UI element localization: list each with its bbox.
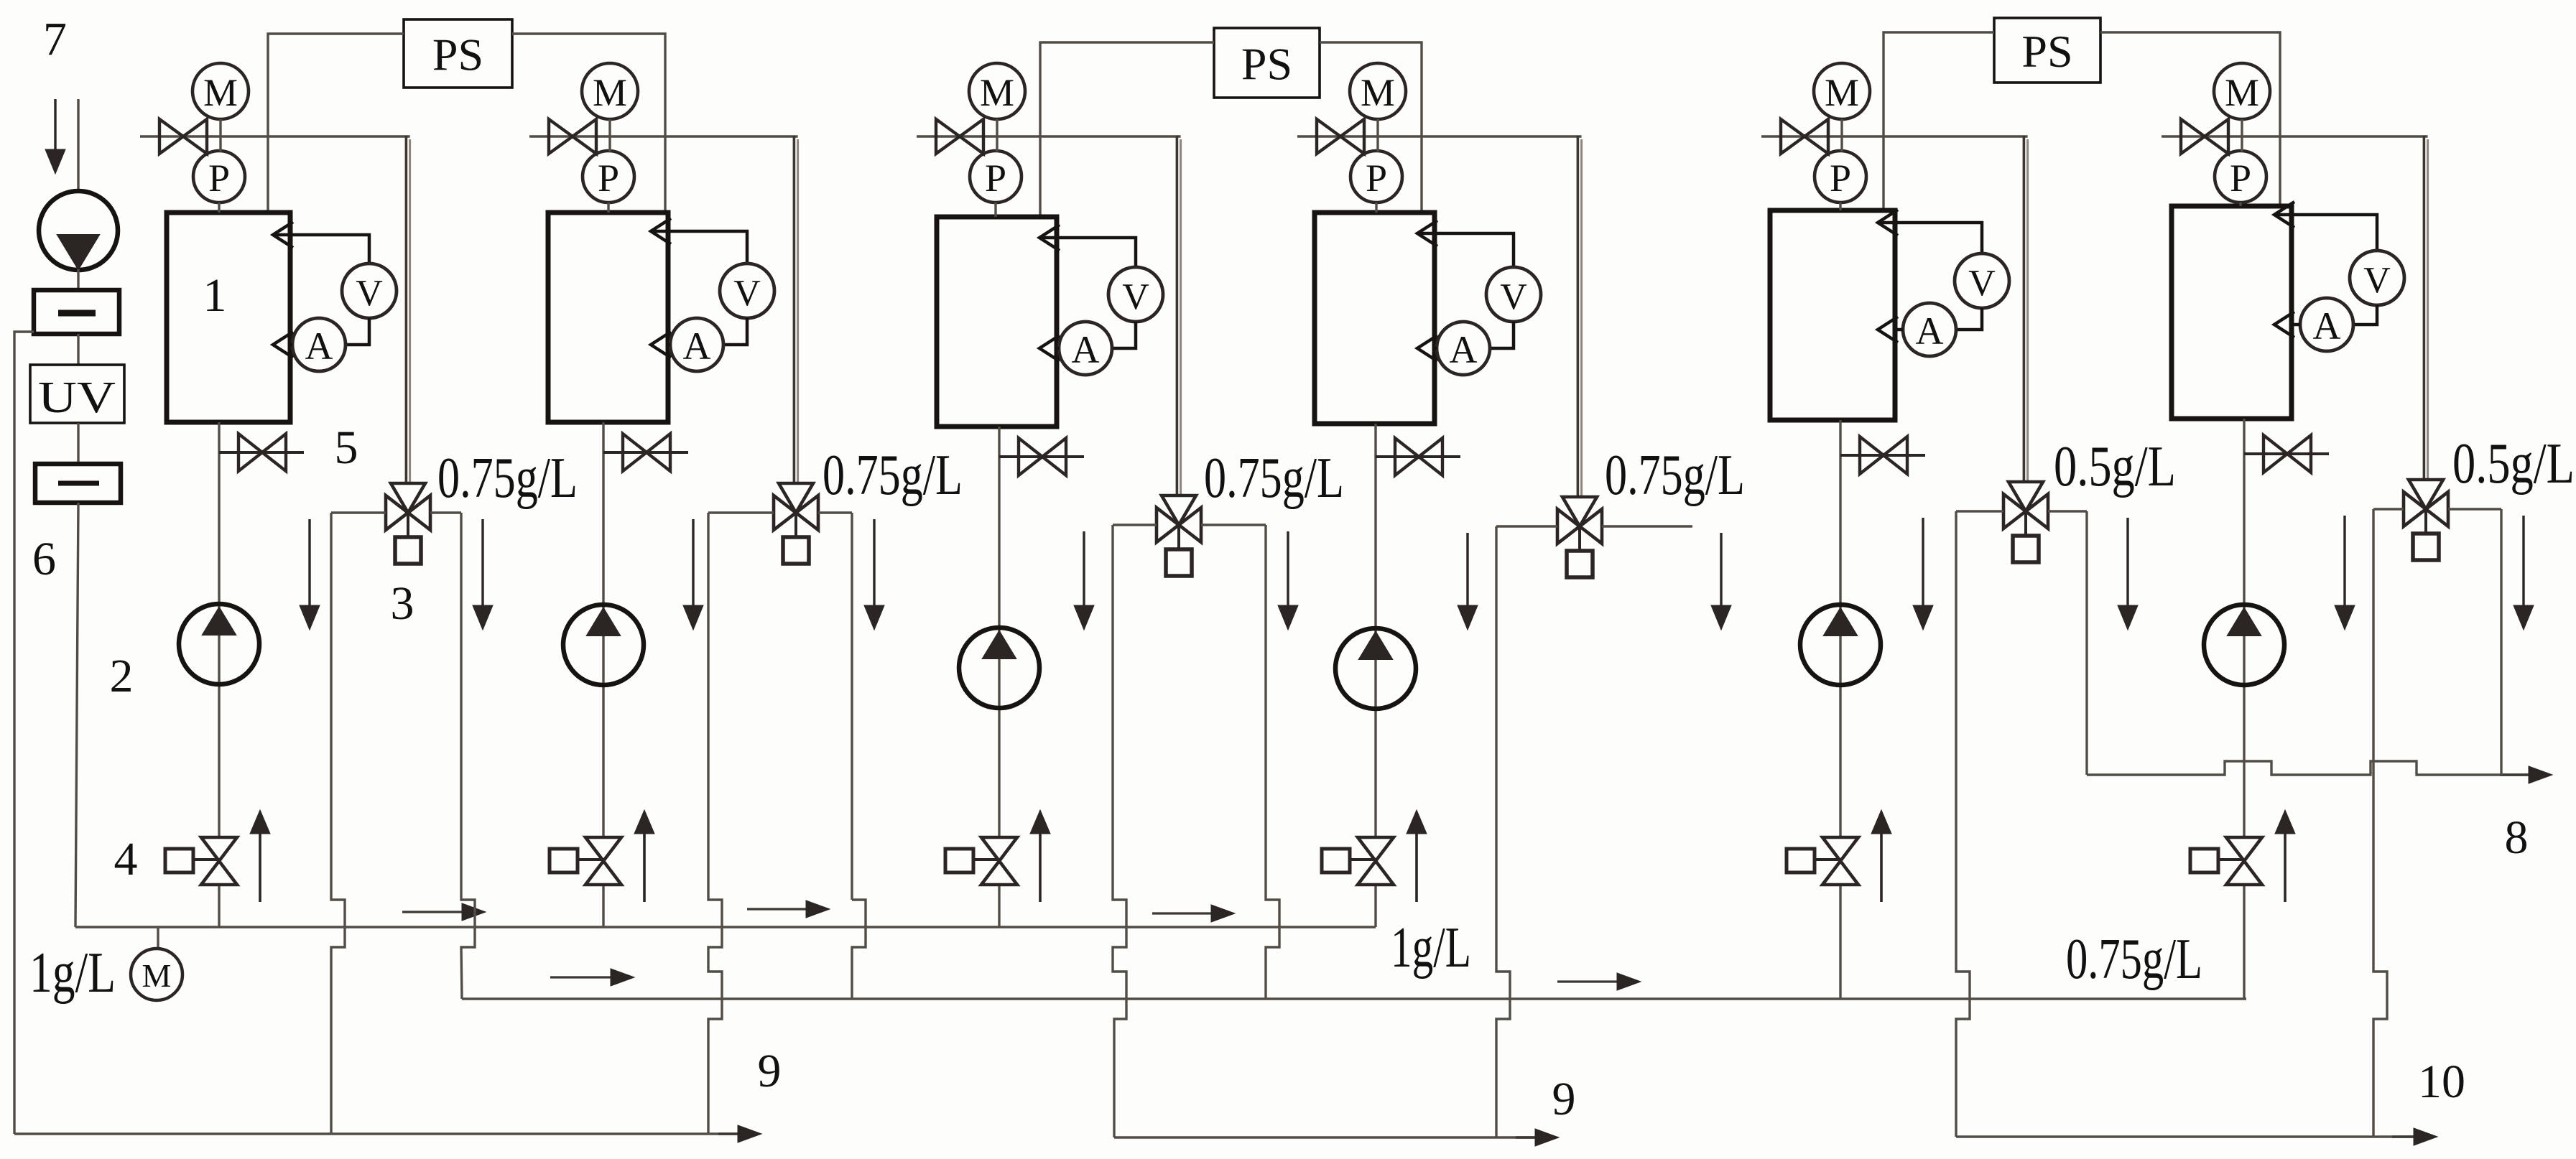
svg-text:A: A xyxy=(1072,328,1100,371)
svg-text:P: P xyxy=(208,157,230,200)
svg-text:0.5g/L: 0.5g/L xyxy=(2054,435,2176,498)
svg-text:2: 2 xyxy=(110,650,134,702)
svg-text:9: 9 xyxy=(1552,1073,1576,1125)
svg-text:A: A xyxy=(1450,328,1478,371)
svg-text:V: V xyxy=(1122,276,1149,317)
svg-text:V: V xyxy=(2363,260,2391,301)
svg-text:P: P xyxy=(2230,157,2251,200)
svg-text:A: A xyxy=(2313,304,2341,348)
svg-text:6: 6 xyxy=(32,533,56,585)
svg-text:PS: PS xyxy=(1241,39,1292,90)
svg-text:0.5g/L: 0.5g/L xyxy=(2452,432,2575,495)
svg-text:1g/L: 1g/L xyxy=(1391,916,1471,979)
svg-text:10: 10 xyxy=(2418,1056,2465,1108)
svg-text:M: M xyxy=(1825,71,1859,114)
svg-text:0.75g/L: 0.75g/L xyxy=(437,447,578,510)
svg-text:0.75g/L: 0.75g/L xyxy=(1605,444,1745,507)
svg-text:V: V xyxy=(356,273,383,314)
svg-text:7: 7 xyxy=(43,13,67,65)
svg-text:A: A xyxy=(1916,309,1944,353)
svg-text:P: P xyxy=(985,157,1006,200)
svg-text:PS: PS xyxy=(432,29,483,80)
svg-text:P: P xyxy=(598,157,619,200)
svg-text:P: P xyxy=(1830,157,1851,200)
svg-text:UV: UV xyxy=(38,373,116,422)
svg-text:M: M xyxy=(2225,71,2259,114)
svg-text:M: M xyxy=(142,957,172,994)
svg-text:V: V xyxy=(733,273,761,314)
svg-text:4: 4 xyxy=(114,833,138,885)
svg-text:P: P xyxy=(1366,157,1387,200)
svg-text:M: M xyxy=(593,71,627,114)
svg-text:1: 1 xyxy=(203,269,227,322)
svg-text:5: 5 xyxy=(335,422,358,474)
svg-text:0.75g/L: 0.75g/L xyxy=(1204,447,1344,510)
svg-text:0.75g/L: 0.75g/L xyxy=(823,444,963,507)
svg-text:A: A xyxy=(683,325,711,368)
svg-text:1g/L: 1g/L xyxy=(29,941,116,1005)
svg-text:M: M xyxy=(1361,71,1395,114)
svg-text:M: M xyxy=(203,71,238,114)
svg-text:3: 3 xyxy=(391,577,414,630)
svg-text:0.75g/L: 0.75g/L xyxy=(2066,928,2202,991)
svg-text:V: V xyxy=(1968,263,1996,304)
svg-text:V: V xyxy=(1500,276,1527,317)
svg-text:A: A xyxy=(305,325,333,368)
svg-text:9: 9 xyxy=(758,1045,782,1097)
svg-text:PS: PS xyxy=(2021,26,2072,77)
svg-text:M: M xyxy=(980,71,1014,114)
svg-text:8: 8 xyxy=(2505,811,2529,864)
